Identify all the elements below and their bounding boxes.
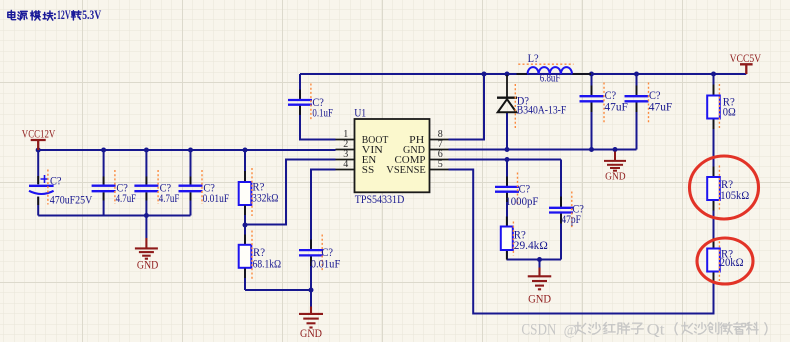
op-amp U1 TPS54331D body [355, 119, 430, 192]
wire VIN bus VCC12V to pin2 [38, 149, 335, 151]
wire SS wire pin4 [311, 170, 336, 250]
wire R0 to R105k [713, 119, 715, 178]
highlight circle around R6 20k [697, 238, 753, 284]
R2 pins [244, 235, 246, 279]
wire R 29.4k bottom lead [506, 250, 508, 260]
capacitor C3 4.7uF plates [134, 186, 158, 192]
wire boot cap riser [299, 74, 301, 99]
marker C10 [571, 192, 573, 229]
marker R3 [512, 222, 514, 256]
marker R2 [251, 231, 253, 281]
wire R105k to R20k [713, 200, 715, 249]
marker C3 [157, 170, 159, 204]
svg-text:TPS54331D: TPS54331D [355, 194, 405, 206]
wire C9 1000pF top lead [506, 160, 508, 187]
junction dot 12 [634, 72, 639, 77]
wire C10 47pF bottom lead [560, 214, 562, 260]
svg-text:1000pF: 1000pF [505, 196, 538, 208]
svg-text:CSDN: CSDN [521, 322, 556, 339]
wire PH pin wire [449, 74, 485, 140]
marker R4 [718, 84, 720, 130]
svg-text:47uF: 47uF [604, 102, 628, 114]
svg-text:4: 4 [343, 159, 348, 170]
L1 pins [517, 73, 592, 75]
U1 pin 4 SS [336, 169, 355, 171]
marker R6 [718, 237, 720, 283]
junction dot 6 [144, 213, 149, 218]
R4 pins [713, 85, 715, 130]
marker C5 [321, 235, 323, 271]
capacitor C1 470uF25V polarized [29, 185, 54, 187]
marker C6 [310, 84, 312, 121]
svg-text:U1: U1 [354, 108, 366, 120]
U1 pin 1 BOOT [336, 139, 355, 141]
svg-text:GND: GND [605, 172, 626, 183]
svg-text:SS: SS [362, 165, 375, 176]
wire C1 470uF bottom lead [37, 197, 39, 216]
wire C8 47uF top lead [636, 74, 638, 95]
wire C5 0.01uF bottom lead [310, 257, 312, 291]
junction dot 1 [36, 148, 41, 153]
svg-text:GND: GND [528, 293, 551, 305]
ground GND2 [299, 307, 323, 328]
svg-text:C?: C? [605, 90, 617, 102]
C2 pins [103, 177, 105, 201]
C10 pins [560, 197, 562, 224]
wire EN wire pin3 [245, 160, 336, 225]
wire C2 top lead [103, 150, 105, 185]
wire diode anode lead [506, 112, 508, 149]
capacitor C6 0.1uF boot plates [288, 100, 312, 105]
wire 68.1k to GND2 [245, 289, 311, 291]
svg-text:47pF: 47pF [561, 214, 581, 226]
svg-text:12V: 12V [57, 8, 71, 22]
resistor R4 0R body [707, 96, 720, 119]
junction dot 8 [309, 288, 314, 293]
wire GND4 stem [539, 260, 541, 268]
junction dot 2 [101, 148, 106, 153]
R3 pins [506, 217, 508, 260]
resistor R6 20k body [707, 249, 720, 272]
U1 pin 2 VIN [336, 149, 355, 151]
svg-text:47uF: 47uF [649, 102, 673, 114]
wire C3 bottom lead [145, 192, 147, 215]
U1 pin 3 EN [336, 159, 355, 161]
marker L1 [518, 63, 573, 65]
marker C2 [114, 170, 116, 204]
ground GND1 [135, 238, 158, 259]
junction dot 15 [589, 147, 594, 152]
capacitor C7 47uF output1 plates [580, 96, 604, 101]
svg-text:0Ω: 0Ω [723, 107, 736, 119]
wire GND2 stem [310, 290, 312, 307]
wire boot cap to pin1 [300, 105, 336, 140]
svg-text:GND: GND [300, 328, 322, 340]
power port VCC5V [740, 64, 753, 74]
svg-text:@: @ [564, 323, 577, 339]
junction dot 11 [589, 72, 594, 77]
svg-text:R?: R? [253, 247, 265, 259]
C5 pins [310, 240, 312, 267]
marker C7 [603, 83, 605, 123]
junction dot 3 [144, 148, 149, 153]
wire GND net wire pin7 [449, 149, 637, 151]
svg-text:C?: C? [519, 183, 531, 195]
svg-text:C?: C? [50, 175, 62, 187]
wire R20k bottom lead [713, 272, 715, 284]
D1 cathode pin [506, 75, 508, 97]
junction dot 10 [505, 72, 510, 77]
wire C4 bottom lead [190, 192, 192, 215]
wire C3 top lead [145, 150, 147, 185]
R1 pins [244, 171, 246, 215]
junction dot 4 [188, 148, 193, 153]
wire R 332k bottom lead [244, 205, 246, 226]
wire GND1 stem [145, 216, 147, 239]
svg-text:GND: GND [137, 259, 159, 271]
C6 pins [299, 90, 301, 116]
wire C1 470uF top lead [37, 150, 39, 184]
wire R 332k top lead [244, 150, 246, 183]
wire comp ground wire [507, 259, 562, 261]
diode D1 B340A-13-F [497, 96, 517, 98]
svg-text:C?: C? [322, 247, 334, 259]
svg-text:105kΩ: 105kΩ [720, 190, 749, 202]
U1 pin 7 GND [430, 149, 449, 151]
wire C10 47pF top lead [560, 160, 562, 208]
wire R 68.1k bottom lead [244, 268, 246, 291]
marker R5 [718, 166, 720, 212]
wire C8 47uF bottom lead [636, 103, 638, 150]
wire left ground bus [38, 215, 190, 217]
wire top PH rail [300, 73, 746, 75]
resistor R1 332k body [239, 182, 252, 205]
U1 pin 5 VSENSE [430, 169, 449, 171]
power port VCC12V [31, 140, 46, 150]
svg-text:L?: L? [528, 53, 539, 65]
capacitor C2 4.7uF plates [92, 186, 116, 192]
svg-text:VSENSE: VSENSE [386, 165, 426, 176]
ground GND3 [604, 152, 626, 171]
title text 电源模块：12V转5.3V [8, 11, 53, 21]
marker R1 [251, 168, 253, 216]
junction dot 17 [505, 157, 510, 162]
svg-text:0.01uF: 0.01uF [203, 193, 230, 205]
capacitor C8 47uF output2 plates [625, 96, 649, 101]
marker C4 [201, 170, 203, 204]
U1 pin 8 PH [430, 139, 449, 141]
marker D1 [514, 84, 516, 130]
svg-text:470uF25V: 470uF25V [50, 195, 93, 207]
svg-text:Qt: Qt [647, 322, 666, 339]
wire COMP wire pin6 [449, 159, 562, 161]
wire C7 47uF bottom lead [591, 103, 593, 150]
C3 pins [145, 177, 147, 201]
marker C9 [517, 173, 519, 207]
wire C2 bottom lead [103, 192, 105, 215]
R5 pins [713, 167, 715, 211]
junction dot 9 [482, 72, 487, 77]
C9 pins [506, 177, 508, 203]
C8 pins [636, 86, 638, 113]
marker C8 [648, 83, 650, 123]
junction dot 14 [505, 147, 510, 152]
svg-text:4.7uF: 4.7uF [116, 193, 137, 205]
svg-text:4.7uF: 4.7uF [159, 193, 180, 205]
C1 pins [37, 176, 39, 205]
svg-text:0.01uF: 0.01uF [311, 258, 341, 270]
svg-text:6.8uF: 6.8uF [540, 73, 561, 85]
capacitor C4 0.01uF plates [179, 186, 203, 192]
wire C9 to R 29.4k [506, 193, 508, 227]
ground GND4 [528, 268, 552, 290]
junction dot 13 [711, 72, 716, 77]
svg-text:0.1uF: 0.1uF [312, 108, 333, 120]
svg-text:B340A-13-F: B340A-13-F [517, 104, 567, 116]
resistor R3 29.4k body [501, 227, 513, 251]
capacitor C9 1000pF plates [495, 187, 519, 192]
marker C1 [47, 170, 49, 205]
junction dot 7 [243, 223, 248, 228]
svg-text:VCC5V: VCC5V [730, 53, 762, 65]
capacitor C5 0.01uF soft-start plates [299, 250, 323, 255]
wire R0 top lead [713, 74, 715, 96]
inductor L1 6.8uF coil [528, 67, 573, 74]
svg-text:20kΩ: 20kΩ [720, 257, 744, 269]
U1 pin 6 COMP [430, 159, 449, 161]
svg-text:5: 5 [438, 159, 443, 170]
svg-text:332kΩ: 332kΩ [252, 192, 279, 204]
C7 pins [591, 86, 593, 113]
R6 pins [713, 238, 715, 282]
highlight circle around R5 105k [690, 156, 759, 219]
svg-text:C?: C? [649, 90, 661, 102]
resistor R5 105k body [707, 177, 720, 200]
junction dot 5 [243, 148, 248, 153]
junction dot 18 [537, 257, 542, 262]
wire C7 47uF top lead [591, 74, 593, 95]
capacitor C10 47pF plates [549, 208, 573, 213]
junction dot 16 [613, 147, 618, 152]
svg-text:68.1kΩ: 68.1kΩ [253, 258, 282, 270]
resistor R2 68.1k body [239, 245, 252, 268]
wire VSENSE wire pin5 [449, 170, 714, 314]
wire C4 top lead [190, 150, 192, 185]
svg-text:VCC12V: VCC12V [22, 128, 56, 140]
wire R 68.1k top lead [244, 225, 246, 245]
C4 pins [190, 177, 192, 201]
svg-text:5.3V: 5.3V [82, 8, 101, 22]
svg-text:29.4kΩ: 29.4kΩ [514, 240, 548, 252]
